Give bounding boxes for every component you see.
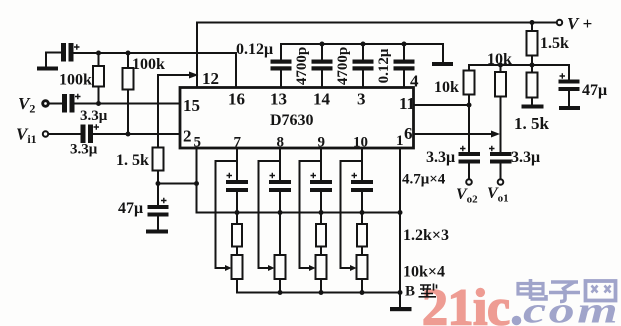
wire Vo2 cap lead [468,164,470,179]
svg-text:4700p: 4700p [294,47,310,85]
cell 4 wiper arrow [350,265,357,271]
capacitor 4.7u (cell 4) [351,180,373,192]
wire V2 input line [49,103,63,105]
wire pin16 lead [235,53,237,87]
svg-text:10k×4: 10k×4 [403,264,445,281]
capacitor 4.7u (cell 1) [226,180,248,192]
wire 1.5k vertical [157,75,159,148]
capacitor 3.3u (C-Vo1) [490,152,512,164]
svg-text:10k: 10k [434,79,459,96]
capacitor 0.12u (C-D pin4) [394,60,415,71]
plus mark C-in-ref [74,44,80,49]
svg-text:0.12μ: 0.12μ [376,48,392,83]
cell 2 direct wire to pot [279,213,281,256]
wire 100k-2 leads [127,53,129,134]
svg-text:3.3μ: 3.3μ [80,108,108,124]
svg-text:1.5k: 1.5k [540,35,569,52]
svg-text:B: B [405,284,415,300]
node junction (322,44) [320,42,325,47]
cell 2 pin8 lead wire [279,149,281,181]
capacitor 4700p (C-C pin3) [353,60,374,71]
wire 1.5k top to pin12 node [158,74,196,76]
svg-text:47μ: 47μ [118,200,143,217]
wire 1.5k bottom to bias node [158,171,197,184]
cell 2 wiper branch wire [259,161,281,268]
wire 100k-1 leads [98,53,100,104]
svg-text:8: 8 [277,135,285,151]
resistor 1.5k (R4 top) [527,31,538,56]
wire cap B leads pin14 [321,44,323,87]
wire top-left cap to ground [46,53,61,67]
cell 2 wiper arrow [268,265,275,271]
svg-text:1: 1 [396,133,404,149]
cell 3 pot bottom lead [320,279,322,293]
plus mark C-Vi1 [94,124,100,129]
svg-text:4700p: 4700p [335,47,351,85]
wire top node y53 [74,52,237,54]
terminal Vi1 [43,131,48,136]
resistor 10k (R5) [464,71,475,95]
ground (R7) [522,105,544,109]
watermark char dian [518,279,546,299]
node junction (280,212) [278,210,283,215]
svg-text:11: 11 [399,94,415,113]
svg-text:15: 15 [183,96,200,115]
node junction (196,183) [194,181,199,186]
potentiometer 10k (cell 3) [316,255,327,279]
capacitor 4700p (C-B pin14) [312,60,333,71]
resistor 1.5k (R7) [527,73,538,98]
node junction (532,65) [530,63,535,68]
resistor 100k (R1) [93,66,104,87]
node junction (362,212) [360,210,365,215]
potentiometer 10k (cell 1) [232,255,243,279]
cell 1 wiper branch wire [216,161,238,268]
svg-text:0.12μ: 0.12μ [236,41,273,58]
svg-text:3.3μ: 3.3μ [70,142,98,158]
terminal V2 [43,101,49,107]
watermark dot [512,316,522,326]
svg-text:V +: V + [567,14,592,33]
wire pin12 lead [196,23,198,88]
cell 1 cap bottom lead [236,192,238,213]
cell 3 wiper branch wire [300,161,322,268]
wire Vi1 input line [49,133,81,135]
wire top caps ground bus [281,44,443,62]
svg-text:5: 5 [194,135,202,151]
potentiometer 10k (cell 4) [357,255,368,279]
capacitor 47u (C-right) [559,80,580,92]
label xing glyph [419,284,437,297]
svg-text:9: 9 [318,135,326,151]
resistor 1.5k (R3) [153,148,164,171]
svg-text:47μ: 47μ [582,82,607,99]
capacitor 4.7u (cell 2) [269,180,291,192]
cell 1 pin7 lead wire [236,149,238,181]
plus mark C-V2 [75,94,81,99]
node junction (99,53) [96,51,101,56]
svg-text:2: 2 [183,127,192,146]
node junction pin12 arrow (197,75) [189,72,199,79]
cell 2 pot bottom lead [279,279,281,293]
node junction (98,103) [96,101,101,106]
ground (C-bias) [146,230,168,234]
svg-text:10k: 10k [487,51,512,68]
node junction (158,183) [156,181,161,186]
plus mark cap cell 1 [227,173,233,178]
wire bottom rail [237,292,400,294]
cell 4 1.2k leads [361,213,363,256]
capacitor 0.12u (C-A pin13) [271,60,292,71]
svg-text:3.3μ: 3.3μ [511,149,540,166]
wire top V+ rail [197,22,557,24]
watermark char wang [586,281,616,301]
wire pin1 vertical to ground [399,149,401,308]
node junction (280,292) [278,290,283,295]
node junction (321,292) [319,290,324,295]
svg-text:D7630: D7630 [270,112,314,129]
wire pin5 lead down [196,149,198,213]
wire common bias rail [197,212,401,214]
resistor 10k (R6) [495,72,506,97]
cell 3 wiper arrow [309,265,316,271]
resistor 1.2k (cell 4) [357,224,367,247]
plus mark C-Vo2 [460,146,466,151]
capacitor 4.7u (cell 3) [310,180,332,192]
svg-text:1.2k×3: 1.2k×3 [403,227,449,244]
node junction V+ rail (532,22.5) [530,20,535,25]
wire cap D leads pin4 [403,44,405,87]
wire pin6 to Vo1 node [414,133,494,135]
wire 47u-1 leads [157,184,159,230]
cell 4 pin10 lead wire [361,149,363,181]
plus mark C-bias [161,198,167,203]
capacitor 3.3u (C-Vi1 input) [81,125,94,144]
svg-text:7: 7 [234,135,242,151]
cell 1 pot bottom lead [236,279,238,293]
cell 3 1.2k leads [320,213,322,256]
node junction pin6 arrow (497,134) [491,131,500,138]
capacitor C-in-ref (top-left, to ground) [61,43,74,62]
wire 10k-1 leads and Vo2 branch [468,65,470,152]
wire right bias node line [469,64,569,66]
cell 1 wiper arrow [225,265,232,271]
plus mark cap cell 2 [270,173,276,178]
svg-text:21ic: 21ic [422,280,510,326]
resistor 100k (R2) [123,68,134,90]
node junction (400,212) [398,210,403,215]
svg-text:4: 4 [410,72,419,91]
node junction (128,53) [126,51,131,56]
wire cap C leads pin3 [362,44,364,87]
resistor 1.2k (cell 3) [316,224,326,247]
node junction (321,212) [319,210,324,215]
cell 4 wiper branch wire [341,161,363,268]
node junction (363,44) [361,42,366,47]
svg-text:4.7μ×4: 4.7μ×4 [402,172,446,188]
node junction (128,134) [126,132,131,137]
svg-text:6: 6 [404,124,413,143]
terminal V+ [557,20,562,25]
svg-text:1. 5k: 1. 5k [514,114,550,133]
wire cap A leads pin13 [280,44,282,87]
capacitor 3.3u (C-Vo2) [459,152,481,164]
cell 1 1.2k leads [236,213,238,256]
svg-text:10: 10 [353,135,368,151]
wire pin11 to 10k-1 [414,104,469,106]
svg-text:13: 13 [270,90,287,109]
potentiometer 10k (cell 2) [275,255,286,279]
node junction (500,65) [498,63,503,68]
cell 4 cap bottom lead [361,192,363,213]
node junction (362,292) [360,290,365,295]
terminal Vo1 [498,179,504,185]
cell 3 cap bottom lead [320,192,322,213]
capacitor 3.3u (C-V2 input) [62,94,75,113]
ground (C-right) [559,106,580,110]
node junction (237,212) [235,210,240,215]
wire Vo1 cap lead [500,164,502,179]
watermark char zi [549,282,580,302]
capacitor 47u (C-bias) [148,205,169,217]
svg-text:14: 14 [313,90,331,109]
node junction (469,105) [467,103,472,108]
wire 1.5k-top leads [531,23,533,66]
node junction (404,44) [402,42,407,47]
svg-text:3.3μ: 3.3μ [426,149,455,166]
wire 47u-2 corner lead [568,65,570,106]
plus mark C-right [560,73,566,78]
plus mark cap cell 3 [311,173,317,178]
svg-text:100k: 100k [59,72,92,89]
ground (top-left) [37,67,58,71]
plus mark cap cell 4 [352,173,358,178]
wire 10k-2 leads and Vo1 branch [500,65,502,152]
svg-text:16: 16 [228,90,245,109]
cell 3 pin9 lead wire [320,149,322,181]
node junction (400,292) [398,290,403,295]
resistor 1.2k (cell 1) [232,224,242,247]
cell 4 pot bottom lead [361,279,363,293]
terminal Vo2 [466,179,472,185]
ground (top caps bus) [432,62,453,66]
svg-text:3: 3 [357,90,366,109]
svg-text:100k: 100k [132,56,165,73]
svg-text:1. 5k: 1. 5k [116,152,149,169]
ground (pin1 bottom) [390,307,412,311]
cell 2 cap bottom lead [279,192,281,213]
svg-text:12: 12 [202,69,219,88]
IC U1 D7630 body [180,88,414,149]
plus mark C-Vo1 [489,146,495,151]
wire 1.5k-2 leads [531,65,533,105]
